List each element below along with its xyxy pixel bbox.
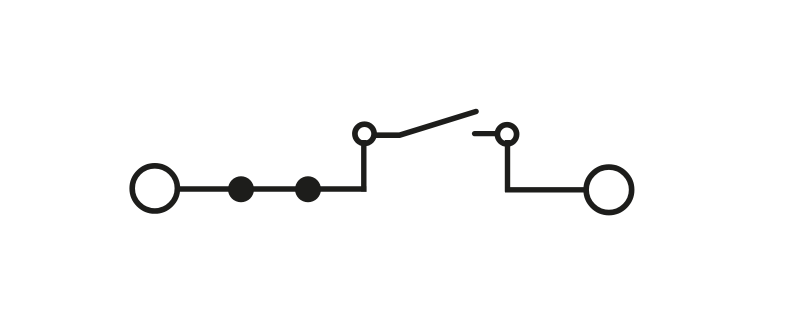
- terminal T1 (left conductor connection circle): [132, 166, 177, 211]
- wire (riser to T2, horizontal): [505, 187, 586, 192]
- switch S1 pivot contact (left open circle): [355, 124, 374, 143]
- junction dot (test/bridge contact 1): [228, 176, 254, 202]
- wire (left vertical riser): [361, 140, 366, 192]
- switch S1 throw contact (right open circle): [497, 125, 516, 144]
- switch S1 blade (knife lever, open): [375, 112, 476, 136]
- switch S1 throw contact lead (short tick): [475, 131, 497, 136]
- wire (T1 to left riser, horizontal): [180, 186, 367, 191]
- junction dot (test/bridge contact 2): [295, 176, 321, 202]
- wire (right vertical riser): [505, 140, 510, 192]
- terminal T2 (right conductor connection circle): [586, 167, 632, 213]
